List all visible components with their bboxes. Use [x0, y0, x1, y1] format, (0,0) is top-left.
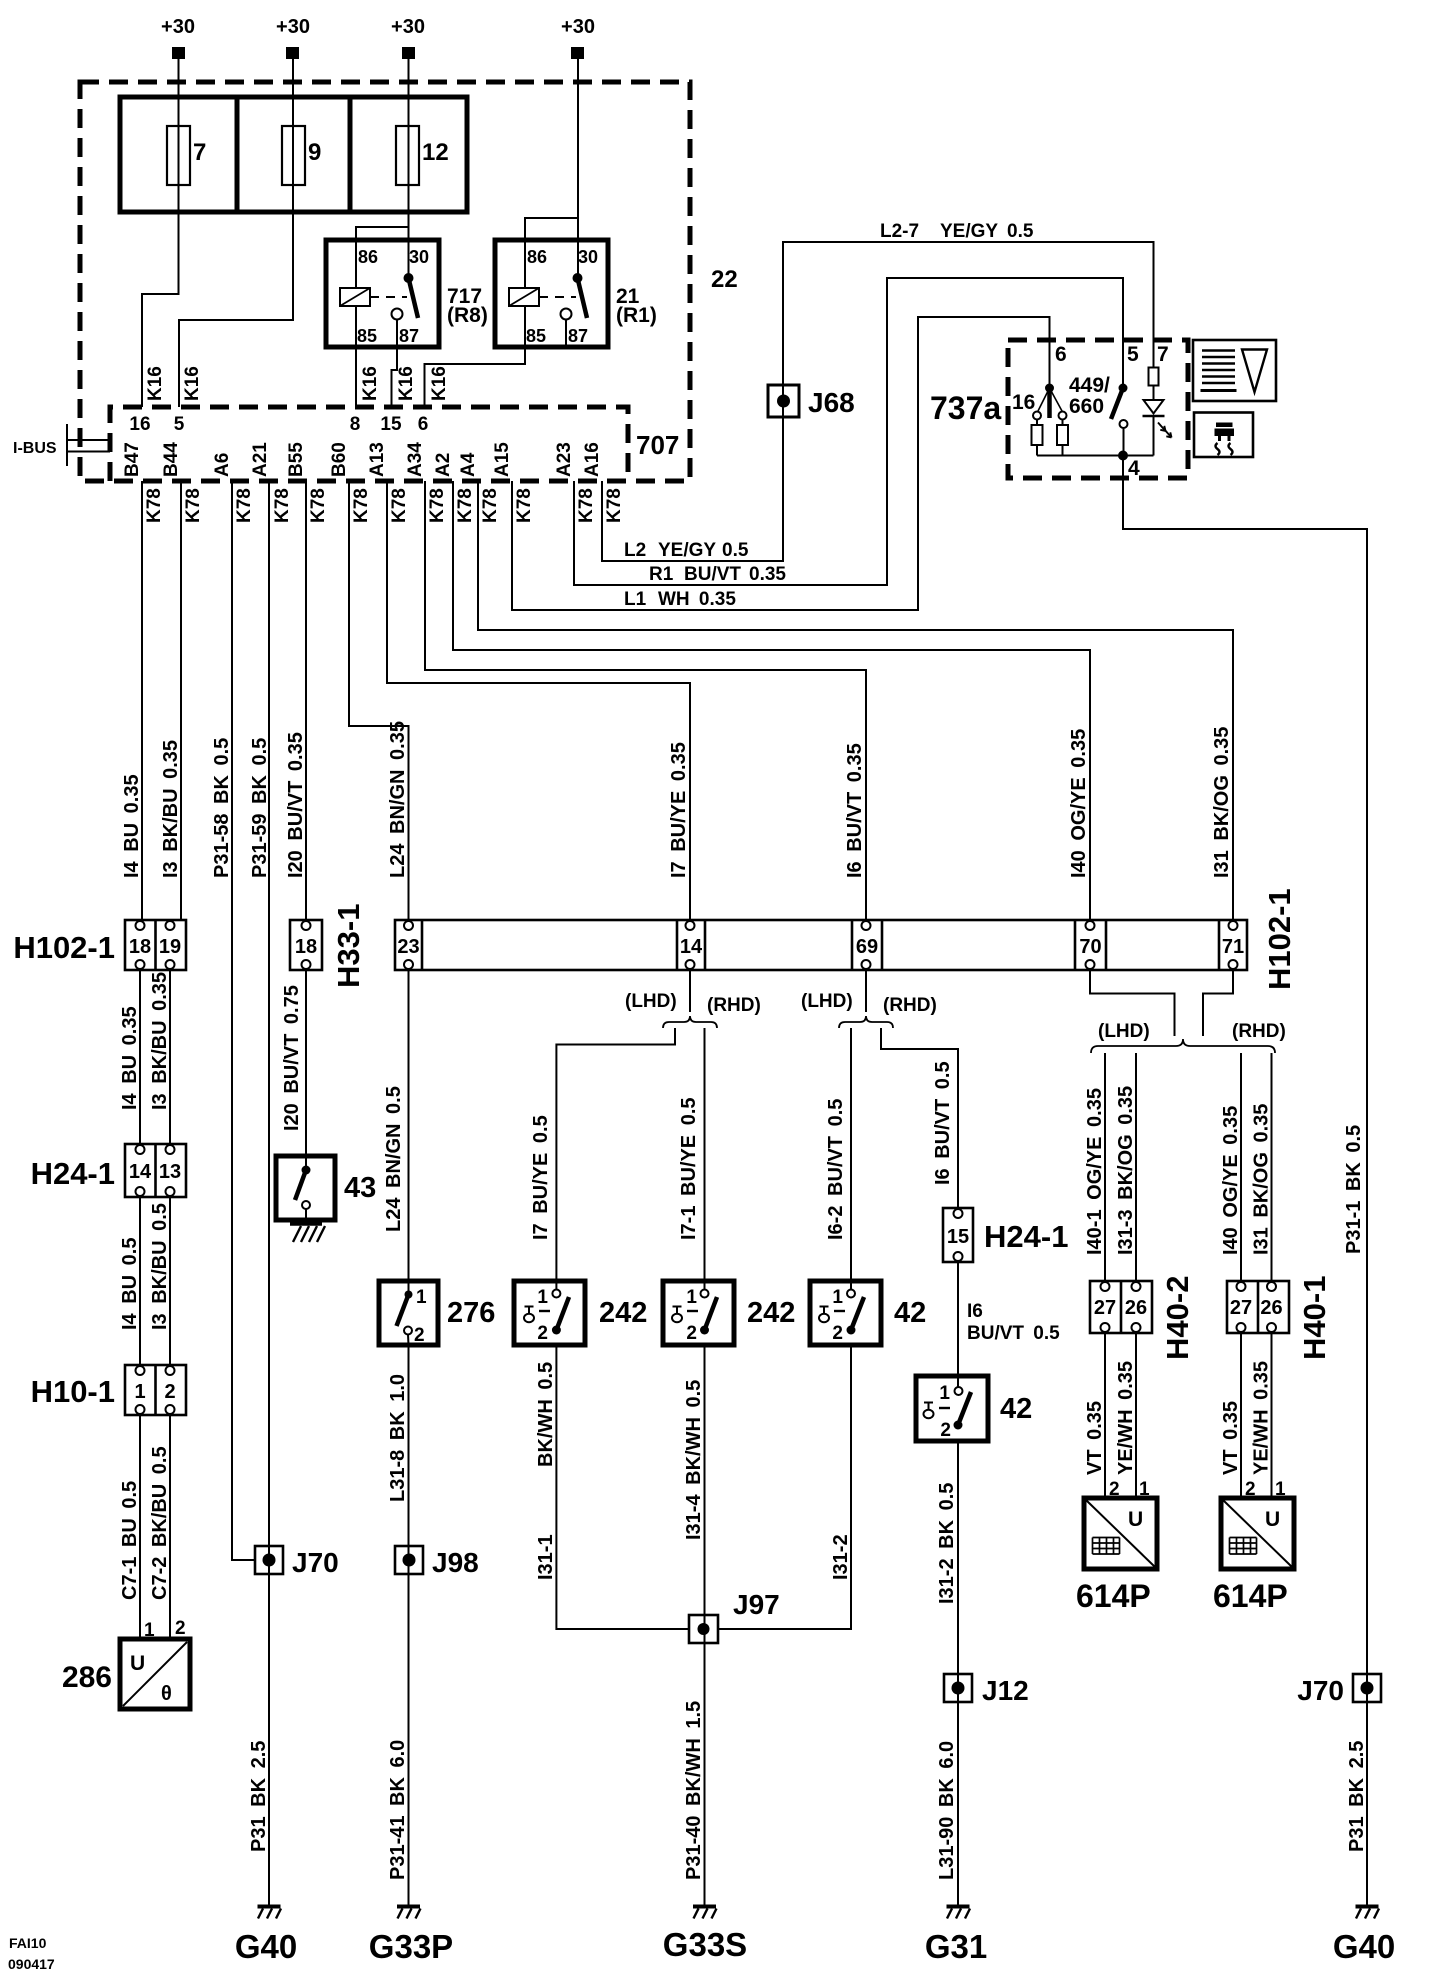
wire H102-1 pin18 to H24-1 pin14 — [139, 970, 141, 1144]
svg-text:0.5: 0.5 — [1007, 221, 1034, 242]
wire 242b through J97 to G33S — [704, 1345, 706, 1905]
svg-text:I4 BU 0.35: I4 BU 0.35 — [121, 774, 143, 878]
junction J12 — [944, 1674, 972, 1702]
svg-text:(RHD): (RHD) — [883, 995, 937, 1016]
svg-text:614P: 614P — [1076, 1578, 1151, 1614]
svg-text:C7-1 BU 0.5: C7-1 BU 0.5 — [119, 1481, 141, 1600]
svg-text:I31 BK/OG 0.35: I31 BK/OG 0.35 — [1251, 1104, 1273, 1255]
svg-text:090417: 090417 — [8, 1956, 55, 1972]
svg-text:+30: +30 — [161, 16, 195, 38]
connector H102-1 left (pins 18,19) — [125, 920, 186, 970]
svg-text:K16: K16 — [396, 366, 417, 401]
junction J70 left — [255, 1546, 283, 1574]
svg-text:660: 660 — [1069, 395, 1104, 418]
svg-text:K16: K16 — [145, 366, 166, 401]
svg-text:18: 18 — [295, 936, 317, 958]
relay 21 pin87 contact — [561, 309, 572, 320]
svg-text:J12: J12 — [982, 1675, 1029, 1706]
svg-text:VT 0.35: VT 0.35 — [1220, 1401, 1242, 1475]
connector H40-2 (pins 27,26) — [1090, 1281, 1152, 1333]
svg-text:23: 23 — [397, 936, 419, 958]
svg-text:2: 2 — [175, 1618, 186, 1639]
wire +30.4 to relay 21 pin 30 — [577, 59, 579, 278]
wire A34 to connector pin 69 — [425, 481, 866, 920]
chassis ground under 43 — [290, 1224, 325, 1242]
svg-text:(R8): (R8) — [447, 304, 488, 327]
svg-text:L24 BN/GN 0.35: L24 BN/GN 0.35 — [387, 721, 409, 878]
svg-text:H33-1: H33-1 — [331, 904, 366, 988]
wire A13 to connector pin 14 — [387, 481, 690, 920]
wire H10-1 pin2 to 286 pin2 — [169, 1415, 171, 1639]
svg-text:J70: J70 — [1297, 1675, 1344, 1706]
wire B47 to H102-1 pin 18 — [141, 481, 143, 920]
LED emission arrows — [1158, 423, 1166, 432]
svg-text:P31-41 BK 6.0: P31-41 BK 6.0 — [387, 1740, 409, 1880]
svg-text:K78: K78 — [604, 488, 625, 523]
737a selector switch arm — [1047, 388, 1052, 418]
svg-text:85: 85 — [357, 326, 377, 346]
svg-text:K78: K78 — [427, 488, 448, 523]
pin 14 — [686, 921, 695, 930]
svg-text:I6-2 BU/VT 0.5: I6-2 BU/VT 0.5 — [825, 1099, 847, 1240]
fuse 12 — [396, 126, 449, 185]
svg-text:I7-1 BU/YE 0.5: I7-1 BU/YE 0.5 — [678, 1097, 700, 1240]
relay 21 (R1) — [495, 240, 608, 347]
svg-text:87: 87 — [399, 326, 419, 346]
svg-text:85: 85 — [526, 326, 546, 346]
svg-text:H24-1: H24-1 — [31, 1156, 115, 1191]
svg-text:6: 6 — [418, 414, 429, 435]
svg-text:K16: K16 — [429, 366, 450, 401]
svg-text:P31-40 BK/WH 1.5: P31-40 BK/WH 1.5 — [683, 1701, 705, 1880]
svg-text:G40: G40 — [1333, 1928, 1395, 1965]
ground G40 right — [1356, 1907, 1380, 1919]
svg-text:K78: K78 — [308, 488, 329, 523]
wire A2 to connector pin 70 — [453, 481, 1090, 920]
wire H40-2 pin27 to 614P-1 pin2 — [1104, 1333, 1106, 1498]
svg-text:449/: 449/ — [1069, 374, 1110, 397]
svg-text:K16: K16 — [360, 366, 381, 401]
svg-text:1: 1 — [537, 1287, 548, 1308]
svg-text:(R1): (R1) — [616, 304, 657, 327]
svg-text:I40-1 OG/YE 0.35: I40-1 OG/YE 0.35 — [1084, 1088, 1106, 1255]
svg-text:G33S: G33S — [663, 1926, 747, 1963]
svg-text:5: 5 — [174, 414, 185, 435]
svg-text:J68: J68 — [808, 387, 855, 418]
dashed enclosure 22 — [80, 82, 690, 481]
svg-text:A15: A15 — [492, 442, 513, 477]
svg-text:G33P: G33P — [369, 1928, 453, 1965]
svg-text:15: 15 — [947, 1226, 969, 1248]
svg-text:0.5: 0.5 — [722, 540, 749, 561]
wire 276 to J98 to G33P — [408, 1345, 410, 1905]
svg-text:86: 86 — [527, 247, 547, 267]
wire pin 14 stub — [689, 970, 691, 1012]
737a switch pin5 pivot — [1119, 384, 1128, 393]
svg-text:+30: +30 — [561, 16, 595, 38]
svg-text:I4 BU 0.5: I4 BU 0.5 — [119, 1238, 141, 1330]
svg-text:P31-1 BK 0.5: P31-1 BK 0.5 — [1343, 1125, 1365, 1254]
relay 21 pin85 wire — [524, 306, 526, 347]
svg-text:G31: G31 — [925, 1928, 987, 1965]
svg-text:2: 2 — [686, 1323, 697, 1344]
svg-text:1: 1 — [686, 1287, 697, 1308]
svg-text:I31 BK/OG 0.35: I31 BK/OG 0.35 — [1211, 727, 1233, 878]
relay 717 coil-contact dashed link — [370, 296, 407, 298]
svg-text:I31-2 BK 0.5: I31-2 BK 0.5 — [936, 1483, 958, 1604]
svg-text:19: 19 — [159, 936, 181, 958]
svg-text:A6: A6 — [212, 453, 233, 477]
brace under pin 69 — [839, 1016, 893, 1028]
connector H40-1 (pins 27,26) — [1227, 1281, 1289, 1333]
connector bar H102-1 right (pins 23,14,69,70,71) — [395, 920, 1247, 970]
svg-text:VT 0.35: VT 0.35 — [1084, 1401, 1106, 1475]
svg-text:YE/GY: YE/GY — [658, 540, 716, 561]
junction J70 right — [1353, 1674, 1381, 1702]
relay 717 (R8) — [326, 240, 439, 347]
svg-text:YE/WH 0.35: YE/WH 0.35 — [1251, 1361, 1273, 1475]
wire 242a to J97 — [556, 1345, 688, 1629]
svg-text:(LHD): (LHD) — [625, 991, 677, 1012]
svg-text:K78: K78 — [144, 488, 165, 523]
svg-text:(LHD): (LHD) — [1098, 1021, 1150, 1042]
wire relay 21 pin85 to 707 pin 6 — [425, 347, 526, 407]
switch 242b — [663, 1281, 734, 1345]
svg-text:(RHD): (RHD) — [1232, 1021, 1286, 1042]
svg-text:P31 BK 2.5: P31 BK 2.5 — [248, 1741, 270, 1852]
svg-text:J97: J97 — [733, 1589, 780, 1620]
svg-text:43: 43 — [344, 1172, 376, 1204]
wire relay 717 pin 86 feed — [356, 227, 409, 288]
fuse box divider 1 — [235, 97, 240, 212]
svg-text:737a: 737a — [930, 390, 1001, 426]
svg-text:H102-1: H102-1 — [13, 930, 115, 965]
svg-text:H10-1: H10-1 — [31, 1374, 115, 1409]
wire LHD I40-1 to H40-2 pin 27 — [1104, 1053, 1106, 1281]
wire 737a pin 4 to right rail — [1123, 456, 1367, 1906]
svg-text:A4: A4 — [458, 452, 479, 477]
svg-text:H102-1: H102-1 — [1262, 888, 1297, 990]
wire A4 to connector pin 71 — [478, 481, 1233, 920]
737a illumination resistor pin7 — [1149, 368, 1159, 386]
relay 717 pin87 contact — [392, 309, 403, 320]
switch 242a — [514, 1281, 585, 1345]
svg-text:276: 276 — [447, 1297, 495, 1329]
svg-text:0.35: 0.35 — [749, 564, 786, 585]
junction J98 — [395, 1546, 423, 1574]
svg-text:14: 14 — [129, 1161, 152, 1183]
svg-text:I-BUS: I-BUS — [13, 440, 57, 457]
svg-text:U: U — [1265, 1508, 1280, 1531]
ground G40 left — [258, 1907, 282, 1919]
wire relay 21 pin 86 feed — [525, 218, 578, 288]
wire H40-1 pin26 to 614P-2 pin1 — [1271, 1333, 1273, 1498]
wire pin23 to switch 276 — [408, 970, 410, 1291]
svg-text:22: 22 — [711, 266, 738, 293]
svg-text:B47: B47 — [122, 442, 143, 477]
737a contact 16a — [1033, 412, 1041, 420]
svg-text:L31-90 BK 6.0: L31-90 BK 6.0 — [936, 1741, 958, 1880]
svg-text:C7-2 BK/BU 0.5: C7-2 BK/BU 0.5 — [149, 1446, 171, 1600]
ground G33S — [693, 1907, 717, 1919]
svg-text:71: 71 — [1222, 936, 1244, 958]
svg-text:K78: K78 — [272, 488, 293, 523]
svg-text:I31-4 BK/WH 0.5: I31-4 BK/WH 0.5 — [683, 1380, 705, 1540]
svg-text:YE/GY: YE/GY — [940, 221, 998, 242]
wire A6 to J70 — [232, 481, 255, 1560]
svg-text:I40 OG/YE 0.35: I40 OG/YE 0.35 — [1220, 1106, 1242, 1255]
svg-text:2: 2 — [832, 1323, 843, 1344]
dashed module 707 — [110, 407, 628, 481]
pin 71 — [1229, 921, 1238, 930]
svg-text:14: 14 — [680, 936, 703, 958]
svg-text:(LHD): (LHD) — [801, 991, 853, 1012]
svg-text:I31-1: I31-1 — [535, 1534, 557, 1580]
svg-text:K78: K78 — [455, 488, 476, 523]
737a junction dot pin4 — [1118, 451, 1128, 461]
ground G33P — [397, 1907, 421, 1919]
pin 70 — [1086, 921, 1095, 930]
wire pin 71 jog — [1203, 970, 1233, 1036]
wire +30.3 to fuse 12 and relay 717 pin 30 — [408, 59, 410, 278]
svg-text:FAI10: FAI10 — [9, 1935, 47, 1951]
wire RHD I31 to H40-1 pin 26 — [1271, 1053, 1273, 1281]
wire 42a to J97 — [718, 1345, 851, 1629]
svg-text:I3 BK/BU 0.35: I3 BK/BU 0.35 — [149, 972, 171, 1110]
wire H40-2 pin26 to 614P-1 pin1 — [1135, 1333, 1137, 1498]
brace under pin 14 — [663, 1016, 717, 1028]
svg-text:J70: J70 — [292, 1547, 339, 1578]
svg-text:7: 7 — [193, 139, 206, 166]
737a resistor b — [1057, 420, 1068, 456]
+30 supply terminal 4 — [561, 16, 595, 59]
svg-text:42: 42 — [1000, 1393, 1032, 1425]
svg-text:2: 2 — [164, 1381, 175, 1403]
svg-text:A23: A23 — [554, 442, 575, 477]
wire H24-1 pin14 to H10-1 pin1 — [139, 1197, 141, 1365]
wire LHD to switch 42a — [850, 1028, 852, 1290]
svg-text:86: 86 — [358, 247, 378, 267]
relay 21 coil-contact dashed link — [539, 296, 576, 298]
connector H10-1 (pins 1,2) — [125, 1365, 186, 1415]
svg-text:2: 2 — [940, 1420, 951, 1441]
svg-text:R1: R1 — [649, 564, 674, 585]
svg-text:I7 BU/YE 0.35: I7 BU/YE 0.35 — [668, 742, 690, 878]
svg-text:A13: A13 — [367, 442, 388, 477]
svg-text:I6 BU/VT 0.35: I6 BU/VT 0.35 — [844, 743, 866, 878]
737a switch pin5 contact — [1120, 420, 1128, 428]
svg-text:2: 2 — [537, 1323, 548, 1344]
svg-text:WH 0.35: WH 0.35 — [658, 589, 736, 610]
svg-text:B60: B60 — [329, 442, 350, 477]
icon panel: rear fog — [1194, 413, 1253, 458]
svg-text:242: 242 — [747, 1297, 795, 1329]
svg-text:B55: B55 — [286, 442, 307, 477]
737a switch pin5 arm — [1111, 388, 1123, 419]
I-BUS connector — [13, 424, 110, 466]
relay 717 pin85 wire — [355, 306, 357, 347]
svg-text:K78: K78 — [480, 488, 501, 523]
svg-text:42: 42 — [894, 1297, 926, 1329]
svg-text:27: 27 — [1094, 1297, 1116, 1319]
wire H40-1 pin27 to 614P-2 pin2 — [1240, 1333, 1242, 1498]
brace for H40 group — [1091, 1039, 1275, 1053]
pin 69 — [862, 921, 871, 930]
wire relay 717 pin87 to 707 pin 15 — [392, 347, 398, 407]
connector H33-1 (pin 18) — [290, 920, 322, 970]
svg-text:1: 1 — [416, 1287, 427, 1308]
737a contact 16b — [1059, 412, 1067, 420]
wire A21 through J70 to G40 — [268, 481, 270, 1905]
svg-text:I20 BU/VT 0.75: I20 BU/VT 0.75 — [281, 985, 303, 1131]
svg-text:L2: L2 — [624, 540, 646, 561]
svg-text:H24-1: H24-1 — [984, 1219, 1068, 1254]
svg-text:I6 BU/VT 0.5: I6 BU/VT 0.5 — [932, 1061, 954, 1185]
svg-text:I31-2: I31-2 — [830, 1534, 852, 1580]
svg-text:L31-8 BK 1.0: L31-8 BK 1.0 — [387, 1374, 409, 1502]
svg-text:70: 70 — [1079, 936, 1101, 958]
svg-text:(RHD): (RHD) — [707, 995, 761, 1016]
svg-text:18: 18 — [129, 936, 151, 958]
wire A15 L1 to 737a pin 6 — [512, 317, 1050, 610]
wire H24-1 pin15 to switch 42b — [957, 1262, 959, 1387]
svg-text:K16: K16 — [182, 366, 203, 401]
wire 42b through J12 to G31 — [957, 1441, 959, 1905]
svg-text:1: 1 — [939, 1383, 950, 1404]
svg-text:K78: K78 — [234, 488, 255, 523]
svg-text:G40: G40 — [235, 1928, 297, 1965]
svg-text:I31-3 BK/OG 0.35: I31-3 BK/OG 0.35 — [1115, 1086, 1137, 1255]
relay 717 coil — [340, 288, 370, 306]
svg-text:P31-59 BK 0.5: P31-59 BK 0.5 — [249, 738, 271, 878]
svg-text:I3 BK/BU 0.35: I3 BK/BU 0.35 — [160, 740, 182, 878]
relay 21 contact arm — [578, 278, 588, 318]
svg-text:614P: 614P — [1213, 1578, 1288, 1614]
svg-text:A2: A2 — [433, 453, 454, 477]
junction J97 — [689, 1615, 718, 1643]
737a LED — [1143, 400, 1172, 456]
switch 42a — [810, 1281, 881, 1345]
svg-text:I7 BU/YE 0.5: I7 BU/YE 0.5 — [530, 1115, 552, 1240]
svg-text:A16: A16 — [582, 442, 603, 477]
lamp unit 614P-1 — [1084, 1498, 1157, 1569]
svg-text:B44: B44 — [161, 442, 182, 477]
svg-text:1: 1 — [134, 1381, 145, 1403]
switch 42b — [916, 1376, 988, 1441]
svg-text:26: 26 — [1125, 1297, 1147, 1319]
svg-text:16: 16 — [129, 414, 150, 435]
svg-text:BU/VT: BU/VT — [684, 564, 741, 585]
svg-text:26: 26 — [1260, 1297, 1282, 1319]
svg-text:U: U — [130, 1652, 145, 1675]
relay 717 contact pivot — [404, 273, 414, 283]
ground G31 — [947, 1907, 971, 1919]
wire RHD to switch 242b — [704, 1028, 706, 1290]
svg-text:4: 4 — [1128, 457, 1140, 480]
+30 supply terminal 3 — [391, 16, 425, 59]
svg-text:1: 1 — [832, 1287, 843, 1308]
svg-text:8: 8 — [350, 414, 361, 435]
fuse box divider 2 — [348, 97, 353, 212]
svg-text:J98: J98 — [432, 1547, 479, 1578]
wire B44 to H102-1 pin 19 — [180, 481, 182, 920]
svg-text:69: 69 — [856, 936, 878, 958]
737a selector switch pivot — [1045, 384, 1054, 393]
junction J68 — [768, 385, 799, 417]
svg-text:+30: +30 — [391, 16, 425, 38]
wire pin 70 jog — [1090, 970, 1175, 1036]
wire H102-1 pin19 to H24-1 pin13 — [169, 970, 171, 1144]
svg-text:+30: +30 — [276, 16, 310, 38]
relay 717 contact arm — [409, 278, 419, 318]
wire RHD to H24-1 pin 15 — [881, 1028, 958, 1208]
temperature sensor 286 — [120, 1639, 190, 1709]
svg-text:θ: θ — [161, 1683, 172, 1705]
svg-text:I4 BU 0.35: I4 BU 0.35 — [119, 1006, 141, 1110]
dashed module 737a — [1008, 340, 1188, 478]
wire +30.2 to fuse 9 and 707 pin 5 — [179, 59, 293, 407]
svg-text:12: 12 — [422, 139, 449, 166]
svg-text:A21: A21 — [250, 442, 271, 477]
wire pin 69 stub — [865, 970, 867, 1012]
svg-text:87: 87 — [568, 326, 588, 346]
svg-text:L2-7: L2-7 — [880, 221, 919, 242]
svg-text:242: 242 — [599, 1297, 647, 1329]
svg-text:15: 15 — [380, 414, 402, 435]
svg-text:707: 707 — [636, 430, 679, 460]
wire A23 R1 to 737a pin 5 — [574, 278, 1123, 585]
svg-text:P31 BK 2.5: P31 BK 2.5 — [1346, 1741, 1368, 1852]
svg-text:I40 OG/YE 0.35: I40 OG/YE 0.35 — [1068, 729, 1090, 878]
+30 supply terminal 2 — [276, 16, 310, 59]
wire A16 L2 through J68 to 737a pin 7 — [602, 242, 1154, 561]
svg-text:2: 2 — [414, 1325, 425, 1346]
lamp unit 614P-2 — [1221, 1498, 1294, 1569]
fuse 9 — [282, 126, 321, 185]
wire B60 to connector pin 23 — [349, 481, 409, 920]
relay 21 coil — [509, 288, 539, 306]
svg-text:BU/VT 0.5: BU/VT 0.5 — [967, 1323, 1060, 1344]
svg-text:L1: L1 — [624, 589, 647, 610]
svg-text:I6: I6 — [967, 1301, 983, 1322]
wire RHD I40 to H40-1 pin 27 — [1240, 1053, 1242, 1281]
connector H24-1 pin 15 — [943, 1208, 973, 1262]
svg-text:5: 5 — [1127, 343, 1139, 366]
737a selector contact links — [1038, 388, 1050, 411]
svg-text:286: 286 — [62, 1661, 112, 1694]
svg-text:30: 30 — [409, 247, 429, 267]
svg-text:U: U — [1128, 1508, 1143, 1531]
fuse 7 — [167, 126, 206, 185]
wire relay 717 pin85 to 707 pin 8 — [355, 347, 357, 407]
wire H10-1 pin1 to 286 pin1 — [139, 1415, 141, 1639]
wire H24-1 pin13 to H10-1 pin2 — [169, 1197, 171, 1365]
svg-text:I20 BU/VT 0.35: I20 BU/VT 0.35 — [285, 732, 307, 878]
+30 supply terminal 1 — [161, 16, 195, 59]
svg-text:K78: K78 — [514, 488, 535, 523]
svg-text:16: 16 — [1012, 391, 1035, 414]
svg-text:K78: K78 — [183, 488, 204, 523]
svg-text:P31-58 BK 0.5: P31-58 BK 0.5 — [211, 738, 233, 878]
svg-text:K78: K78 — [351, 488, 372, 523]
wire LHD to switch 242a — [556, 1028, 675, 1290]
wire LHD I31-3 to H40-2 pin 26 — [1135, 1053, 1137, 1281]
wire +30.1 to fuse 7 and 707 pin 16 — [142, 59, 179, 407]
svg-text:A34: A34 — [405, 442, 426, 477]
svg-text:I3 BK/BU 0.5: I3 BK/BU 0.5 — [149, 1203, 171, 1330]
737a bottom bus wire — [1037, 455, 1154, 457]
svg-text:BK/WH 0.5: BK/WH 0.5 — [535, 1362, 557, 1467]
